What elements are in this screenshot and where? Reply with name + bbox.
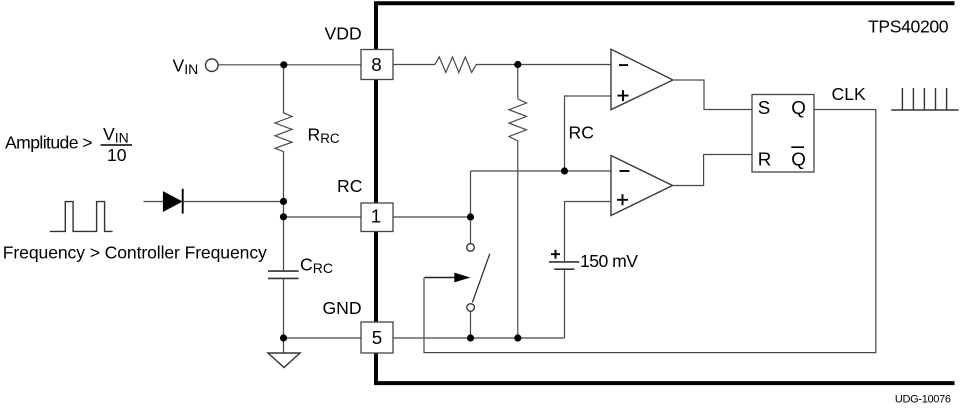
svg-text:R: R: [758, 148, 772, 169]
svg-text:8: 8: [371, 54, 381, 75]
svg-text:CRC: CRC: [300, 254, 333, 276]
svg-text:1: 1: [371, 205, 381, 226]
svg-text:RRC: RRC: [308, 124, 340, 146]
svg-text:Amplitude >: Amplitude >: [5, 132, 93, 152]
svg-text:CLK: CLK: [832, 84, 866, 104]
svg-text:UDG-10076: UDG-10076: [895, 394, 951, 406]
svg-text:VIN: VIN: [103, 124, 129, 146]
svg-text:Q: Q: [791, 97, 806, 118]
svg-text:Q: Q: [791, 149, 806, 170]
svg-text:150 mV: 150 mV: [580, 251, 638, 271]
svg-text:RC: RC: [337, 176, 363, 196]
svg-text:TPS40200: TPS40200: [868, 16, 949, 36]
svg-text:GND: GND: [323, 298, 362, 318]
svg-text:S: S: [758, 97, 771, 118]
svg-text:Frequency > Controller Frequen: Frequency > Controller Frequency: [3, 243, 267, 263]
svg-text:10: 10: [107, 145, 127, 165]
svg-text:VDD: VDD: [325, 23, 362, 43]
svg-text:VIN: VIN: [173, 56, 199, 78]
svg-text:RC: RC: [569, 122, 595, 142]
svg-text:5: 5: [372, 327, 382, 348]
